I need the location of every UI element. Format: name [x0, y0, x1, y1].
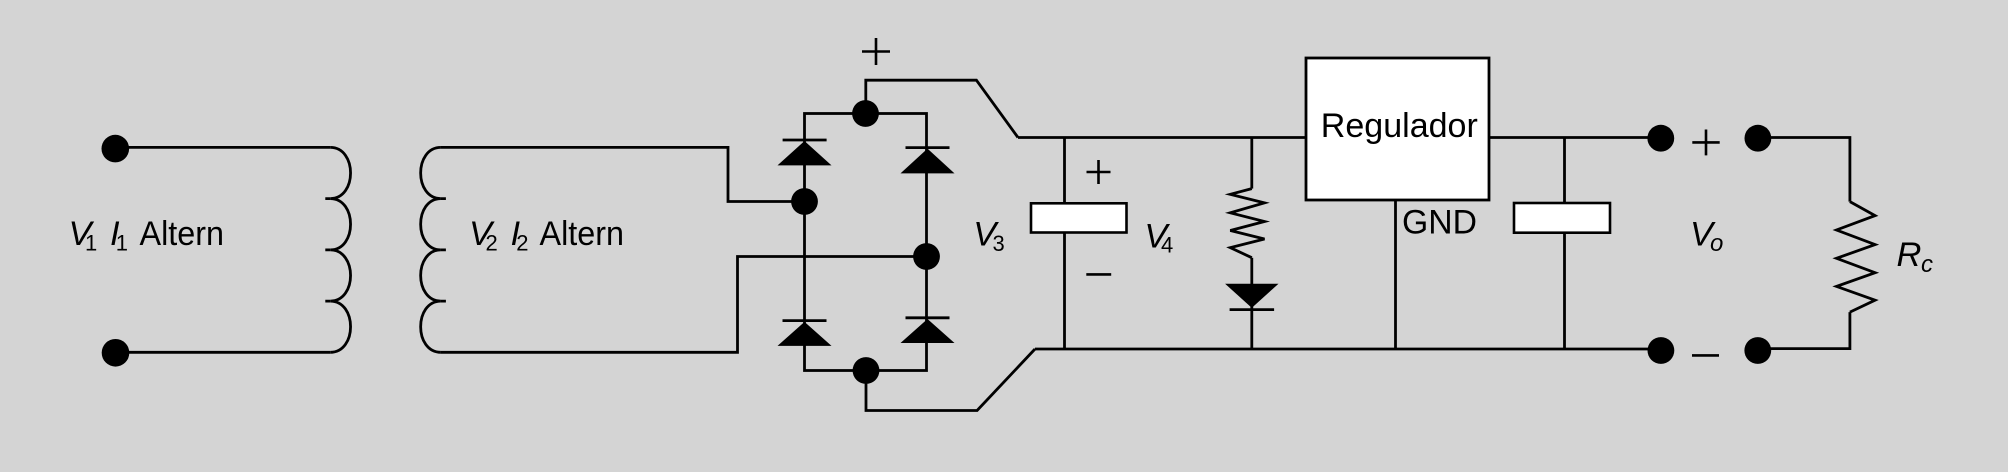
- node bridge bottom: [853, 357, 880, 384]
- resistor R1 zigzag: [1230, 189, 1264, 258]
- svg-text:Altern: Altern: [540, 215, 625, 253]
- regulator box U1: [1306, 58, 1489, 200]
- diode D2 upper-right: [901, 148, 955, 174]
- svg-text:R: R: [1897, 236, 1922, 274]
- plus sign above bridge: [862, 38, 890, 65]
- resistor Rc zigzag: [1837, 202, 1876, 313]
- label Vo: [1690, 216, 1723, 258]
- node terminal dot primary top: [102, 135, 130, 163]
- wire primary bottom: [115, 351, 330, 354]
- wire top rail right of regulator: [1489, 136, 1660, 139]
- wire bridge top output: [866, 80, 1018, 137]
- wire primary top: [115, 146, 330, 149]
- inductor L1 cusp ticks: [325, 199, 330, 302]
- node bridge top: [852, 100, 879, 127]
- wire bridge bottom output: [866, 349, 1035, 411]
- svg-text:2: 2: [516, 231, 528, 256]
- diode D3 lower-left: [778, 321, 832, 346]
- node output - right: [1744, 337, 1771, 364]
- svg-text:Regulador: Regulador: [1321, 107, 1478, 145]
- wire resistor-zener branch: [1250, 138, 1253, 189]
- svg-text:3: 3: [993, 231, 1005, 256]
- diode D1 upper-left: [778, 140, 832, 165]
- wire zener branch lower: [1250, 258, 1253, 349]
- wire load top: [1758, 138, 1850, 202]
- svg-text:c: c: [1921, 251, 1933, 278]
- diode D4 lower-right: [901, 318, 955, 343]
- svg-text:4: 4: [1161, 233, 1173, 258]
- wire capacitor C1 branch: [1063, 138, 1066, 350]
- plus sign output: [1692, 130, 1719, 156]
- svg-text:GND: GND: [1402, 203, 1477, 241]
- node bridge left: [791, 188, 818, 215]
- svg-text:1: 1: [85, 231, 97, 256]
- capacitor C2 body: [1514, 203, 1610, 233]
- inductor L2 cusp ticks: [441, 199, 446, 302]
- label V4: [1144, 218, 1173, 258]
- label Rc: [1897, 236, 1934, 278]
- wire secondary top to bridge left node: [441, 147, 805, 201]
- minus sign capacitor C1: [1086, 273, 1111, 276]
- node terminal dot primary bottom: [102, 339, 130, 367]
- node bridge right: [913, 243, 940, 270]
- plus sign capacitor C1: [1087, 160, 1111, 184]
- svg-text:o: o: [1710, 230, 1723, 257]
- wire load bottom: [1758, 312, 1850, 349]
- label V1 I1 Altern: [69, 215, 225, 256]
- node output + right: [1745, 125, 1772, 152]
- label V3: [973, 216, 1004, 257]
- svg-text:1: 1: [116, 231, 128, 256]
- wire secondary bottom to bridge right node: [441, 257, 927, 353]
- minus sign output: [1692, 354, 1719, 357]
- inductor L2 secondary winding: [421, 147, 441, 352]
- zener diode D5: [1225, 284, 1278, 310]
- svg-text:Altern: Altern: [140, 215, 225, 253]
- wire capacitor C2 branch: [1563, 138, 1566, 350]
- wire GND: [1394, 200, 1397, 349]
- node output - left: [1648, 337, 1675, 364]
- node output + left: [1647, 125, 1674, 152]
- bridge rectangle wires: [805, 114, 927, 371]
- label V2 I2 Altern: [469, 215, 624, 256]
- inductor L1 primary winding: [330, 147, 350, 352]
- capacitor C1 body: [1031, 203, 1127, 232]
- svg-text:2: 2: [486, 231, 498, 256]
- wire bottom rail: [1035, 348, 1661, 351]
- wire top rail left of regulator: [1018, 136, 1306, 139]
